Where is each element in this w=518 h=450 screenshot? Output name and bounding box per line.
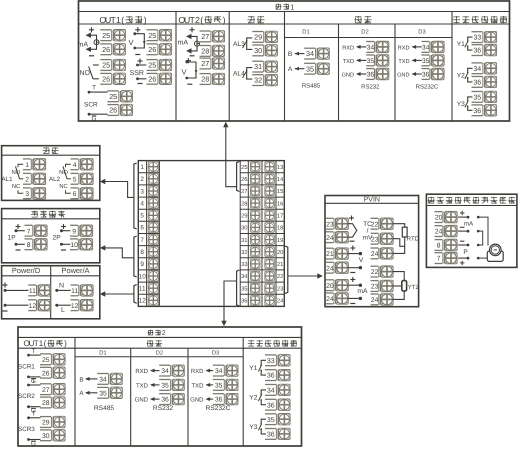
strip screw row 9 col2 [265,259,275,269]
strip screw row 6 col2 [265,223,275,233]
svg-text:36: 36 [367,72,375,79]
svg-text:1P: 1P [8,235,17,242]
RS232C terminal 35 [422,55,432,66]
svg-text:26: 26 [148,45,156,54]
PVIN terminal 22 (RTD) [371,218,381,229]
svg-text:RXD: RXD [135,368,148,375]
PVIN terminal 24 (V) [326,262,336,273]
svg-text:SSR: SSR [130,70,144,77]
PVIN TC junction wiring [348,216,357,242]
OUT1 V plus [135,29,140,31]
svg-text:30: 30 [42,433,50,440]
feed terminal 7 [25,225,35,236]
svg-text:7: 7 [437,256,441,263]
svg-text:12: 12 [29,303,37,310]
header alarm [247,16,255,23]
svg-text:mA: mA [178,40,189,47]
svg-text:9: 9 [140,261,144,268]
strip screw row 12 col2 [265,296,275,306]
svg-text:32: 32 [254,76,262,85]
svg-text:SCR: SCR [84,101,98,108]
mode-2 RS232C TXD lead [192,382,214,389]
Power/D terminal 11 [28,285,38,296]
feed 2P minus lead [60,243,70,250]
alarm block frame [2,146,100,201]
svg-text:(: ( [200,15,203,25]
transmitter terminal leads [458,211,474,265]
mode-2 RS232 terminal 36 [159,394,172,405]
svg-text:T: T [32,378,36,385]
mode-2 RS232C GND lead [190,397,213,404]
mode-2 SCR2 T lead [27,378,40,387]
strip screw row 11 col2 [265,283,275,293]
svg-text:GND: GND [190,397,204,404]
mode-2 SCR3 G lead [27,438,40,447]
svg-text:2: 2 [195,15,200,25]
strip screw row 2 col2 [265,174,275,184]
svg-text:28: 28 [201,47,209,56]
strip screw row 4 col2 [265,198,275,208]
svg-text:V: V [181,68,186,77]
mode-2 terminal 25 [40,354,53,365]
svg-text:33: 33 [241,261,247,268]
RS232 GND lead [342,72,367,78]
svg-text:27: 27 [42,387,50,394]
event Y1 contact [457,37,473,50]
feed 1P minus lead [15,243,25,250]
PVIN terminal 24 (TC) [326,232,336,243]
svg-text:Y2: Y2 [457,73,465,80]
svg-text:35: 35 [99,390,107,397]
svg-text:24: 24 [435,229,443,236]
svg-text:RTD: RTD [407,235,420,242]
svg-text:35: 35 [367,58,375,65]
svg-text:L: L [61,307,65,314]
svg-text:24: 24 [277,298,284,305]
svg-text:2: 2 [25,176,29,183]
feed terminal 9 [70,225,80,236]
RS232 terminal 34 [366,42,376,53]
svg-text:35: 35 [241,285,247,292]
svg-text:4: 4 [73,162,77,169]
OUT1 terminal 25 (SCR) [107,91,120,102]
D1 terminal 35 [304,63,317,74]
OUT1 mA plus sign [89,29,94,31]
event terminal 36 [472,77,485,88]
svg-text:V: V [359,257,364,264]
AL1 terminal 1 [23,159,33,170]
D1 terminal 34 [304,48,317,59]
RS232 RXD lead [342,45,366,51]
svg-text:8: 8 [27,242,31,249]
Power/A terminal 12 [71,300,81,311]
svg-text:35: 35 [267,417,275,424]
left strip grid [138,161,159,307]
alarm terminal 30 [252,45,265,56]
svg-text:31: 31 [254,62,262,71]
Power/A N lead [55,283,71,292]
event terminal 34 [265,385,278,396]
svg-text:25: 25 [109,92,117,101]
svg-text:/: / [367,228,369,235]
svg-text:6: 6 [73,191,77,198]
svg-text:36: 36 [161,397,169,404]
wire strip rows 11-12 to power block [104,285,137,304]
svg-text:B: B [79,376,83,383]
Power/A L lead [55,304,71,314]
svg-text:mA: mA [78,42,89,49]
OUT1 terminal 26 (V) [147,44,160,55]
OUT1 mA wire with arrows and loop circle [91,35,97,49]
svg-text:D1: D1 [302,30,309,36]
event Y3 contact [457,97,473,110]
svg-text:36: 36 [473,48,481,55]
feed 2P plus lead [53,224,71,242]
svg-text:8: 8 [140,249,144,256]
svg-text:N: N [59,283,64,290]
svg-text:19: 19 [277,237,283,244]
svg-text:D3: D3 [212,350,219,357]
OUT2 V wire [187,62,196,78]
svg-text:TXD: TXD [398,59,409,65]
D1 A lead [288,66,305,73]
mode-2 SCR3 T lead [27,411,40,420]
svg-text:24: 24 [371,297,379,304]
mode-2 D1 B lead [79,376,97,383]
alarm block title [43,147,50,154]
OUT2 mA wire with loop circle [191,36,197,51]
svg-text:24: 24 [326,296,334,303]
svg-text:RS485: RS485 [94,405,114,412]
svg-text:5: 5 [73,176,77,183]
mode-1 block frame [79,1,510,121]
OUT2 mA minus [190,55,195,57]
svg-text:25: 25 [102,31,110,40]
PVIN V leads [348,246,364,273]
transmitter terminal 20 [435,212,445,223]
wire terminals 34-36 to mode-2 block [224,270,239,322]
svg-text:34: 34 [422,45,430,52]
svg-text:25: 25 [102,61,110,70]
PVIN terminal 23 (TC) [326,218,336,229]
mode-2 RS232C RXD lead [191,368,213,375]
mode-2 RS232 RXD lead [135,368,159,375]
svg-text:20: 20 [326,283,334,290]
OUT1 terminal 25 (V) [147,30,160,41]
svg-text:13: 13 [277,164,283,171]
svg-text:NC: NC [12,183,20,190]
event Y1 contact [249,360,266,375]
svg-text:24: 24 [326,265,334,272]
AL2 terminal 5 [71,173,81,184]
strip screw row 5 col2 [265,211,275,221]
svg-text:34: 34 [306,49,314,58]
svg-text:22: 22 [371,269,379,276]
Power/D terminal 12 [28,300,38,311]
OUT1 terminal 25 (mA) [100,30,113,41]
svg-text:7: 7 [27,228,31,235]
event terminal 36 [472,45,485,56]
svg-text:): ) [64,339,67,348]
wire terminals 25-27 to mode-1 block [226,126,240,192]
svg-text:12: 12 [71,303,79,310]
svg-text:34: 34 [473,66,481,73]
svg-text:11: 11 [139,286,146,293]
event terminal 33 [472,32,485,43]
svg-text:3: 3 [25,191,29,198]
svg-text:T: T [32,411,36,418]
mode-2 terminal 30 [40,430,53,441]
svg-text:YTZ: YTZ [408,284,420,291]
svg-text:Power/D: Power/D [12,266,40,275]
svg-text:23: 23 [371,236,379,243]
instrument outline [138,161,284,307]
RTD resistor and wiring [393,224,420,254]
PVIN terminal 21 (V) [326,248,336,259]
svg-text:12: 12 [139,298,147,305]
RS232C terminal 36 [422,69,432,80]
svg-text:10: 10 [139,273,147,280]
OUT1 terminal 26 (SCR) [107,105,120,116]
svg-text:27: 27 [241,188,247,195]
svg-text:29: 29 [254,33,262,42]
PVIN block frame [325,196,419,307]
svg-text:26: 26 [42,370,50,377]
OUT1 mA output wiring [78,42,89,49]
svg-text:36: 36 [241,298,247,305]
svg-text:T: T [32,348,36,355]
svg-text:RS232: RS232 [153,405,173,412]
OUT1 terminal 25 (SSR) [147,60,160,71]
svg-text:2P: 2P [53,235,62,242]
svg-text:33: 33 [267,358,275,365]
OUT2 mA plus [189,29,194,31]
svg-text:SCR2: SCR2 [18,393,35,400]
strip screw row 10 col2 [265,271,275,281]
PVIN terminal 23 (YTZ) [371,281,381,292]
svg-text:SCR3: SCR3 [18,426,35,433]
mode-2 D1 terminal 34 [97,374,110,385]
column divider lines [176,12,452,122]
svg-text:RS232: RS232 [361,84,380,91]
alarm AL3 contact [233,38,252,50]
svg-text:26: 26 [102,45,110,54]
svg-text:34: 34 [267,388,275,395]
Power/A terminal 11 [71,285,81,296]
OUT1 mA minus sign [89,55,94,57]
transmitter terminal 8 [435,240,445,251]
event terminal 36 [265,399,278,410]
header external event input [453,16,460,23]
svg-text:26: 26 [148,74,156,83]
svg-text:23: 23 [277,285,283,292]
svg-text:1: 1 [140,164,144,171]
svg-text:23: 23 [326,221,334,228]
svg-text:1: 1 [25,162,29,169]
mode-2 RS232C terminal 35 [213,380,226,391]
svg-text:29: 29 [241,213,247,220]
OUT2 terminal 28 (V) [200,74,213,85]
svg-text:35: 35 [215,383,223,390]
svg-text:15: 15 [277,189,283,195]
mode-2 D1 terminal 35 [97,387,110,398]
svg-text:24: 24 [371,251,379,258]
RS232 terminal 36 [366,69,376,80]
svg-text:28: 28 [42,400,50,407]
svg-text:D2: D2 [361,29,368,36]
svg-text:): ) [144,15,147,25]
OUT2 terminal 28 (mA) [200,46,213,57]
PVIN terminal 24 (YTZ) [371,294,381,305]
svg-text:36: 36 [473,108,481,115]
RS232C TXD lead [398,58,421,64]
OUT2 V plus [186,60,191,62]
svg-text:TXD: TXD [192,382,205,389]
svg-text:36: 36 [267,402,275,409]
feed output title [31,211,38,217]
svg-text:RS232C: RS232C [416,84,439,91]
svg-text:22: 22 [277,273,283,280]
svg-text:): ) [223,15,226,25]
svg-text:35: 35 [473,95,481,102]
svg-text:34: 34 [367,45,375,52]
YTZ resistor and wiring [393,272,420,300]
svg-text:17: 17 [277,214,283,220]
OUT1 terminal 26 (SSR) [147,73,160,84]
strip screw row 1 col2 [265,162,275,172]
event terminal 35 [472,92,485,103]
alarm AL4 contact [233,68,252,80]
svg-text:RXD: RXD [191,368,204,375]
svg-text:9: 9 [72,228,76,235]
event Y2 contact [249,390,266,405]
mode-1 title [275,4,281,10]
PVIN terminal 24 (mA) [326,293,336,304]
RS232C GND lead [397,72,422,78]
event terminal 34 [472,63,485,74]
svg-text:D2: D2 [156,350,163,357]
mode-2 D1 A lead [79,390,97,397]
svg-text:35: 35 [422,58,430,65]
mode-2 SCR1 T lead [27,348,40,357]
svg-text:29: 29 [42,420,50,427]
svg-text:5: 5 [140,213,144,220]
svg-text:20: 20 [277,249,283,256]
svg-text:GND: GND [342,72,354,78]
svg-text:2: 2 [162,330,166,337]
AL1 terminal 2 [23,173,33,184]
svg-text:PVIN: PVIN [364,196,380,203]
OUT1 SSR minus [138,83,143,85]
svg-text:28: 28 [241,200,247,207]
mode-2 terminal 27 [40,384,53,395]
header comm [354,16,362,23]
OUT1 SSR plus [137,60,142,62]
AL2 terminal 4 [71,159,81,170]
OUT1 terminal 26 (mA) [100,44,113,55]
strip screw row 7 col2 [265,235,275,245]
mode-2 dividers [75,337,243,446]
event terminal 36 [265,429,278,440]
AL1 terminal 3 [23,188,33,199]
svg-text:18: 18 [277,225,283,232]
mode-2 terminal 29 [40,417,53,428]
AL1 relay contact [2,164,24,193]
feed terminal 10 [70,239,80,250]
svg-text:33: 33 [473,35,481,42]
mode-2 RS232 terminal 34 [159,365,172,376]
svg-text:mA: mA [357,288,368,295]
two-wire transmitter title [428,197,435,204]
mode-2 RS232C terminal 34 [213,365,226,376]
svg-text:NC: NC [59,183,67,190]
transmitter terminal 24 [435,226,445,237]
strip screw row 8 col2 [265,247,275,257]
Power/D plus lead [3,283,29,292]
svg-text:25: 25 [42,357,50,364]
OUT1 NO relay contact [80,65,99,79]
mode-2 RS232 terminal 35 [159,380,172,391]
svg-text:30: 30 [254,46,262,55]
svg-text:11: 11 [29,288,36,295]
D1 B lead [288,51,305,58]
wire strip rows 1-6 to alarm block [104,163,137,229]
RS232C terminal 34 [422,42,432,53]
svg-text:34: 34 [215,368,223,375]
svg-text:35: 35 [161,383,169,390]
svg-text:V: V [128,38,133,47]
transmitter symbol [487,244,503,261]
mode-2 block frame [18,327,302,446]
svg-text:GND: GND [135,397,149,404]
event terminal 35 [265,414,278,425]
svg-text:4: 4 [140,200,144,207]
svg-text:27: 27 [201,59,209,68]
AL2 terminal 6 [71,188,81,199]
mode-2 terminal 26 [40,367,53,378]
strip screw row 3 col2 [265,186,275,196]
svg-text:21: 21 [326,251,334,258]
OUT1 terminal 25 (NO) [100,60,113,71]
svg-text:TXD: TXD [343,59,354,65]
svg-text:34: 34 [99,377,107,384]
mode-2 SCR1 G lead [27,376,40,385]
svg-text:B: B [288,51,293,58]
mode-2 header comm [147,340,154,346]
mode-2 terminal 28 [40,397,53,408]
svg-text:8: 8 [437,243,441,250]
svg-text:GND: GND [397,72,409,78]
svg-text:7: 7 [140,237,144,244]
PVIN terminal 20 (mA) [326,280,336,291]
svg-text:RS485: RS485 [302,83,321,90]
mode-2 RS232C terminal 36 [213,394,226,405]
svg-text:30: 30 [241,225,247,232]
svg-text:NO: NO [59,169,68,176]
event terminal 36 [472,105,485,116]
svg-text:Power/A: Power/A [62,266,90,275]
RS232 terminal 35 [366,55,376,66]
svg-text:Y3: Y3 [249,424,257,431]
event Y3 contact [249,419,266,434]
svg-text:3: 3 [140,188,144,195]
OUT1 terminal 26 (NO) [100,73,113,84]
mode-2 header external event input [248,340,255,346]
svg-text:Y3: Y3 [457,101,465,108]
feed terminal 8 [25,239,35,250]
svg-text:25: 25 [148,61,156,70]
Power/D minus lead [3,304,29,311]
